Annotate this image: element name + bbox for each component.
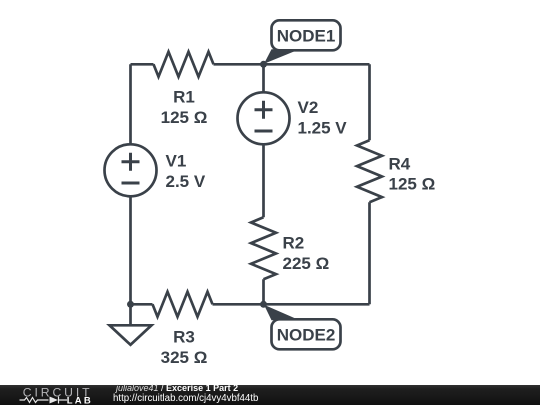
svg-text:R4: R4 [389, 154, 411, 173]
svg-text:R3: R3 [173, 327, 195, 346]
svg-text:125 Ω: 125 Ω [161, 108, 208, 127]
svg-text:125 Ω: 125 Ω [389, 174, 436, 193]
svg-text:NODE2: NODE2 [277, 325, 336, 344]
svg-text:LAB: LAB [67, 396, 93, 405]
svg-text:2.5 V: 2.5 V [166, 172, 206, 191]
svg-text:325 Ω: 325 Ω [161, 348, 208, 367]
svg-text:225 Ω: 225 Ω [283, 254, 330, 273]
svg-text:V2: V2 [298, 98, 319, 117]
svg-text:1.25 V: 1.25 V [298, 118, 348, 137]
svg-text:NODE1: NODE1 [277, 26, 336, 45]
svg-text:R1: R1 [173, 87, 195, 106]
svg-text:R2: R2 [283, 233, 305, 252]
svg-text:V1: V1 [166, 151, 187, 170]
